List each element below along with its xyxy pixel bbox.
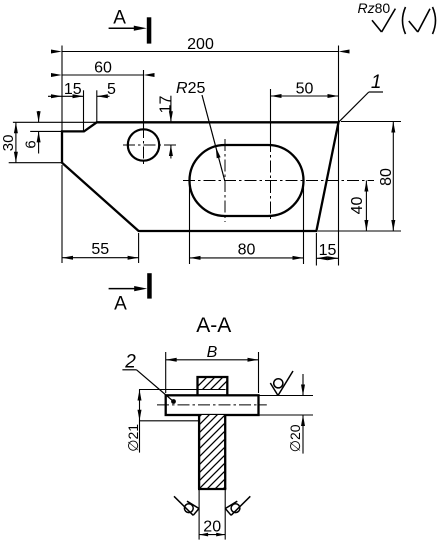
surface symbol right of shaft	[225, 496, 250, 515]
section cut mark A (bottom)	[109, 273, 152, 314]
dimension 30 (left)	[0, 122, 18, 162]
svg-text:15: 15	[319, 242, 337, 259]
extension line top-right corner downwards (x=338.5)	[338, 124, 340, 266]
circle vertical centerline / 60-dim extension	[143, 70, 145, 165]
extension line top edge rightwards (y=121.5)	[341, 121, 401, 123]
dimension 15 (top left)	[48, 81, 84, 99]
dimension 50 (top right)	[271, 81, 339, 99]
dimension 6 (left step)	[23, 111, 41, 154]
svg-text:17: 17	[157, 96, 174, 114]
callout leader 1	[339, 72, 384, 122]
svg-text:6: 6	[23, 140, 40, 148]
svg-text:200: 200	[187, 36, 214, 53]
pin shaft (hatched) below plate	[198, 415, 226, 489]
extension line left edge downwards for 55-dim	[61, 165, 63, 263]
hole top line (21 dia upper extension)	[139, 389, 226, 391]
dimension 80 (slot width)	[190, 242, 304, 260]
extension line bottom-right corner (x=316.4)	[315, 233, 317, 266]
extension line step edge leftwards (y=131.4)	[30, 130, 62, 132]
dimension 55 (bottom left)	[62, 241, 139, 260]
dimension 17 (vertical, circle center)	[157, 96, 174, 159]
svg-text:40: 40	[349, 197, 366, 215]
svg-text:30: 30	[0, 135, 17, 152]
svg-text:Rz80: Rz80	[358, 0, 391, 16]
slot obround R25	[190, 145, 304, 216]
svg-text:5: 5	[107, 81, 116, 98]
extension line bevel corner downwards (x=138.6)	[138, 233, 140, 263]
surface roughness symbol Rz80	[358, 0, 396, 32]
svg-text:B: B	[207, 344, 218, 361]
section title A-A	[196, 314, 231, 337]
hole circle (21 dia) in main view	[128, 129, 159, 160]
radius leader R25	[176, 80, 225, 181]
svg-text:A-A: A-A	[196, 314, 231, 337]
extension line chamfer top (x=96.8)	[96, 90, 98, 122]
svg-text:2: 2	[124, 352, 136, 373]
extension line slot left for 80-dim (x=189.5)	[189, 184, 191, 264]
dimension 15 (bottom right)	[316, 242, 338, 260]
extension line bottom-left corner leftwards (y=162.7)	[9, 162, 62, 164]
slot left arc centerline	[224, 139, 226, 222]
shaft extension lines below	[199, 489, 225, 540]
svg-text:20: 20	[203, 519, 221, 536]
svg-text:55: 55	[91, 241, 109, 258]
extension line top-right corner (x=338.5)	[338, 46, 340, 123]
dimension B (section width)	[166, 344, 259, 393]
svg-text:50: 50	[296, 81, 314, 98]
dimension dia20 (right)	[259, 374, 314, 454]
section centerline	[157, 404, 267, 406]
circle horizontal centerline / 17-dim extension	[123, 144, 178, 146]
plate bar in section	[166, 395, 259, 415]
dimension 40 (right)	[349, 181, 368, 232]
dimension 5 (chamfer)	[97, 81, 116, 99]
svg-text:1: 1	[371, 72, 382, 93]
svg-text:60: 60	[94, 60, 112, 77]
svg-text:A: A	[113, 8, 126, 29]
callout leader 2 with dot	[122, 352, 176, 404]
hole bottom line (21 dia lower extension)	[139, 420, 199, 422]
dimension dia21 (left)	[125, 390, 142, 453]
svg-text:A: A	[114, 294, 127, 315]
dimension 80 (right height)	[378, 122, 395, 232]
surface roughness in parentheses	[403, 7, 436, 34]
svg-text:∅21: ∅21	[125, 424, 141, 452]
svg-text:80: 80	[378, 168, 395, 186]
dimension 60	[51, 60, 155, 78]
section cut mark A (top)	[109, 8, 152, 44]
extension line chamfer start (x=84)	[83, 90, 85, 131]
surface symbol (no material removal) on top extension	[270, 371, 293, 396]
plate outline (main view of part 1)	[62, 122, 339, 231]
pin head (hatched) in section	[198, 377, 228, 395]
svg-text:15: 15	[64, 81, 82, 98]
extension line slot right for 80-dim (x=303.5)	[303, 184, 305, 264]
svg-text:80: 80	[238, 242, 256, 259]
extension line left edge (x=62)	[61, 46, 63, 132]
svg-text:R25: R25	[176, 80, 205, 97]
svg-text:∅20: ∅20	[287, 424, 303, 452]
dimension 200 (top)	[51, 36, 350, 54]
dimension 20 (shaft width)	[199, 519, 225, 537]
extension line top edge leftwards (y=122.3)	[13, 121, 97, 123]
extension line bottom edge rightwards (y=231)	[318, 230, 401, 232]
slot right arc centerline / 50-dim extension	[270, 89, 272, 222]
surface symbol left of shaft	[174, 496, 199, 515]
slot horizontal centerline with right extension	[183, 180, 374, 182]
